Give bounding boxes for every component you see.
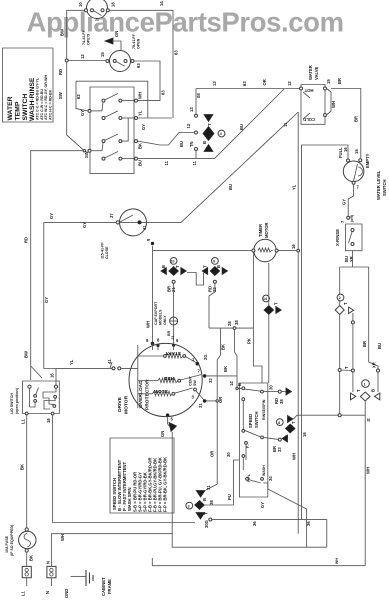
svg-text:MOTOR: MOTOR	[264, 222, 269, 238]
wire 34 wash out	[264, 483, 307, 547]
svg-text:14: 14	[263, 297, 267, 301]
svg-text:115-41-FF: 115-41-FF	[101, 242, 105, 259]
svg-text:WH: WH	[60, 534, 65, 541]
svg-text:33: 33	[277, 447, 282, 452]
red winding	[138, 369, 206, 383]
link YL-BK	[122, 118, 128, 141]
svg-text:WASH: WASH	[262, 465, 266, 476]
wire YL/16 bus vertical	[297, 112, 299, 534]
svg-text:B: B	[371, 389, 376, 392]
wire 28 row	[209, 327, 253, 329]
wire 115-FF out	[141, 221, 181, 223]
svg-text:WH: WH	[366, 467, 371, 474]
wire fuse to L1 plug	[26, 552, 28, 566]
svg-text:GY: GY	[141, 124, 146, 130]
wire FULL to 16 bus	[302, 145, 349, 250]
svg-text:13: 13	[189, 107, 194, 112]
wire BR 21 down to capacitor	[173, 283, 175, 317]
svg-text:GY: GY	[44, 297, 49, 303]
water level switch	[338, 147, 387, 200]
wire to lid switch left	[31, 151, 83, 380]
water temp switch legend box	[3, 48, 54, 122]
contact BU	[102, 157, 105, 160]
speed switch right terminals 30	[264, 385, 292, 404]
svg-text:4: 4	[220, 132, 222, 136]
timer motor	[252, 222, 278, 261]
chassis frame inner rect	[172, 432, 327, 547]
svg-text:AppliancePartsPros.com: AppliancePartsPros.com	[27, 7, 344, 38]
wire YL row	[138, 117, 173, 119]
svg-text:1: 1	[364, 383, 366, 387]
svg-text:SWITCH: SWITCH	[382, 179, 387, 196]
wire OR bus (y=88) to water valve	[196, 88, 300, 90]
svg-text:63: 63	[174, 50, 179, 55]
wire jog to cluster1 left	[341, 369, 353, 372]
svg-text:PROTECTOR: PROTECTOR	[145, 379, 151, 410]
wire WH down to motor	[152, 251, 154, 342]
wire BK jog	[217, 328, 220, 401]
svg-text:41: 41	[142, 225, 147, 230]
node SW junction	[83, 150, 89, 159]
svg-text:BK: BK	[29, 555, 34, 561]
diagonal BU up to OR bus	[215, 89, 285, 159]
svg-text:B: B	[216, 265, 221, 268]
svg-text:B: B	[202, 498, 207, 501]
svg-text:TEMP: TEMP	[15, 101, 22, 120]
svg-text:BR: BR	[362, 341, 367, 347]
svg-text:OR: OR	[262, 79, 267, 85]
svg-text:WH: WH	[335, 558, 339, 564]
svg-text:TN: TN	[189, 141, 194, 147]
svg-text:30: 30	[226, 452, 231, 457]
svg-text:GY: GY	[49, 213, 54, 219]
svg-text:HOT: HOT	[304, 88, 313, 93]
wire 16 lid down to cluster3 rail	[53, 415, 195, 523]
svg-text:38: 38	[279, 399, 284, 404]
wire timer motor left	[153, 250, 252, 252]
svg-text:15: 15	[326, 79, 331, 84]
svg-text:38: 38	[209, 500, 214, 505]
wire WH from S2 right	[134, 61, 160, 101]
svg-text:BU: BU	[228, 184, 233, 190]
svg-text:RINSE/SPIN: RINSE/SPIN	[262, 399, 266, 420]
svg-text:XR: XR	[349, 256, 354, 262]
svg-text:BR: BR	[337, 78, 342, 84]
svg-text:BU: BU	[377, 343, 382, 349]
svg-text:10A FUSE: 10A FUSE	[5, 535, 9, 553]
svg-text:GY: GY	[342, 199, 347, 205]
svg-text:T: T	[203, 265, 208, 268]
contact YL	[102, 117, 105, 120]
svg-text:SLOW: SLOW	[153, 388, 168, 394]
svg-text:31: 31	[198, 403, 203, 408]
svg-text:GY: GY	[80, 110, 85, 116]
svg-text:SWITCH: SWITCH	[254, 411, 259, 428]
svg-text:CLOSE: CLOSE	[105, 246, 109, 259]
wire BR right drop	[369, 267, 378, 392]
svg-text:36: 36	[252, 521, 257, 526]
wire BW from S1 left terminal	[67, 10, 85, 59]
svg-text:L1: L1	[21, 590, 26, 596]
wire BK lid to fuse	[26, 415, 28, 528]
svg-text:CABINET: CABINET	[101, 577, 106, 596]
svg-text:GY: GY	[82, 222, 87, 228]
wire 7/BK to speed switch	[206, 376, 242, 389]
svg-text:36: 36	[306, 521, 311, 526]
svg-text:74-41-FF: 74-41-FF	[82, 29, 86, 45]
svg-text:63: 63	[161, 90, 166, 95]
cabinet ground	[64, 570, 112, 598]
wire 28 drop to motor 7 wire	[235, 329, 238, 376]
svg-text:VALVE: VALVE	[314, 66, 319, 80]
lid switch	[10, 373, 59, 424]
svg-text:37: 37	[109, 213, 114, 218]
svg-text:9: 9	[213, 260, 215, 264]
svg-text:16: 16	[291, 244, 296, 249]
svg-text:62: 62	[76, 94, 81, 99]
svg-text:15: 15	[100, 52, 105, 57]
svg-text:8: 8	[278, 421, 280, 425]
svg-text:EMPTY: EMPTY	[365, 153, 370, 168]
svg-text:16: 16	[302, 432, 307, 437]
svg-text:10: 10	[78, 2, 83, 7]
connector stack T/B (to water valve harness)	[179, 89, 225, 159]
svg-text:RD: RD	[24, 237, 29, 243]
wire S1 right to top rail	[109, 10, 173, 118]
svg-text:2G: 2G	[203, 354, 208, 360]
node J1	[65, 59, 68, 62]
svg-text:11: 11	[283, 122, 288, 127]
timer switch S1 (top)	[78, 0, 116, 19]
connector group 1	[351, 380, 380, 415]
svg-text:WASH SPIN: WASH SPIN	[127, 488, 132, 512]
10A fuse	[5, 524, 36, 561]
svg-text:SWITCH: SWITCH	[22, 94, 29, 121]
X-RINSE switch	[335, 214, 362, 262]
svg-text:DRIVE: DRIVE	[117, 396, 123, 412]
svg-text:63: 63	[242, 81, 247, 86]
svg-text:OR: OR	[218, 397, 223, 403]
svg-text:GND: GND	[64, 589, 69, 598]
connector pair 2 (open)	[335, 294, 353, 314]
svg-text:BK: BK	[20, 464, 25, 470]
speed switch box	[237, 383, 268, 497]
svg-text:T: T	[344, 366, 349, 369]
svg-text:SPEED: SPEED	[248, 414, 253, 428]
timer switch S2	[100, 51, 134, 72]
capacitor (export models)	[154, 301, 178, 344]
svg-text:18: 18	[111, 2, 116, 7]
svg-text:38: 38	[234, 320, 239, 325]
box terminals right	[135, 99, 138, 102]
svg-text:LID SWITCH: LID SWITCH	[10, 393, 14, 414]
svg-text:SW: SW	[193, 380, 197, 386]
svg-text:WATER LEVEL: WATER LEVEL	[376, 170, 381, 200]
svg-text:3: 3	[188, 504, 190, 508]
wire RD down-left	[67, 62, 85, 151]
connector group 6	[161, 258, 186, 293]
node junction N row	[338, 414, 341, 417]
wire bypass 6-10	[187, 273, 204, 286]
svg-text:F-PL: F-PL	[247, 473, 251, 482]
wire timer motor right	[278, 250, 297, 252]
svg-text:16: 16	[50, 373, 55, 378]
svg-text:ATC H-C = RD-BK: ATC H-C = RD-BK	[48, 89, 52, 120]
wire YL to motor	[56, 367, 138, 369]
svg-text:OPEN: OPEN	[137, 38, 141, 49]
svg-text:13: 13	[212, 81, 217, 86]
wire WH bottom rail	[51, 534, 172, 566]
svg-text:30: 30	[269, 385, 274, 390]
wire RD 22 down	[209, 283, 215, 328]
wire 36 row	[212, 518, 327, 520]
water temp contact box	[88, 87, 135, 174]
svg-text:16: 16	[46, 418, 51, 423]
wire PU from diamond3	[204, 460, 239, 505]
wire frame right edge	[326, 519, 328, 547]
svg-text:63: 63	[136, 63, 141, 68]
wire drop A to diamond pair	[339, 267, 341, 305]
drive motor	[117, 338, 208, 417]
svg-text:T: T	[175, 265, 180, 268]
svg-text:GN: GN	[114, 31, 119, 37]
left feeds	[91, 110, 102, 112]
svg-text:28: 28	[227, 321, 232, 326]
svg-text:16: 16	[343, 147, 348, 152]
svg-text:12: 12	[287, 81, 292, 86]
svg-text:31: 31	[206, 485, 211, 490]
wire GY drop to lid switch	[43, 222, 45, 368]
svg-text:N: N	[367, 418, 370, 423]
svg-text:MOTOR: MOTOR	[124, 395, 130, 414]
svg-text:BW: BW	[60, 29, 65, 36]
svg-text:2: 2	[339, 296, 341, 300]
contact BK	[102, 140, 105, 143]
svg-text:GY: GY	[260, 502, 265, 508]
svg-text:14: 14	[229, 381, 234, 386]
svg-text:BR: BR	[167, 330, 171, 336]
svg-text:CENT: CENT	[189, 375, 193, 386]
svg-text:OPE'D: OPE'D	[87, 34, 91, 45]
svg-text:11: 11	[164, 160, 169, 165]
svg-text:WATER: WATER	[308, 65, 313, 80]
svg-text:(IF SO EQUIPPED): (IF SO EQUIPPED)	[10, 524, 14, 556]
svg-text:(off): (off)	[350, 214, 354, 222]
svg-text:X-RINSE: X-RINSE	[335, 229, 340, 246]
wire OR from motor 3 down	[206, 400, 217, 402]
wire A continue to N-row junction	[339, 315, 341, 414]
chassis arrow GN near S2	[105, 31, 121, 50]
svg-text:BW: BW	[24, 351, 29, 358]
svg-text:WATER: WATER	[7, 96, 14, 120]
svg-text:T: T	[343, 302, 348, 305]
svg-text:BU: BU	[239, 124, 244, 130]
motor internal bus	[137, 345, 139, 408]
wire FULL bus down	[301, 250, 303, 519]
svg-text:30G: 30G	[204, 520, 209, 528]
svg-text:T: T	[274, 302, 279, 305]
node timer/16 junction	[297, 249, 300, 252]
svg-text:BR: BR	[354, 116, 359, 122]
wire timer left drop to speed switch	[252, 252, 254, 328]
svg-text:12: 12	[80, 54, 85, 59]
svg-text:YL: YL	[69, 359, 74, 365]
svg-text:B: B	[237, 383, 242, 386]
svg-text:RD: RD	[58, 69, 63, 75]
connector group 8	[264, 416, 297, 453]
wire harness rail y267	[340, 266, 369, 268]
node 9 stub	[146, 238, 154, 251]
connector group 10	[202, 258, 227, 293]
115-41-FF switch	[101, 209, 148, 259]
svg-text:12: 12	[186, 123, 191, 128]
svg-text:11: 11	[192, 160, 197, 165]
svg-text:T: T	[204, 512, 209, 515]
svg-text:L1: L1	[21, 418, 26, 424]
svg-text:N: N	[45, 591, 50, 594]
svg-text:CAP EXPORT: CAP EXPORT	[154, 301, 158, 325]
svg-text:78-41-FF: 78-41-FF	[132, 33, 136, 49]
wire GY to 115-FF	[44, 221, 116, 223]
svg-text:14: 14	[159, 1, 164, 6]
speed switch legend box	[110, 438, 174, 513]
svg-text:WH: WH	[146, 321, 151, 328]
svg-text:XR: XR	[372, 362, 377, 368]
svg-text:T: T	[207, 123, 212, 126]
wire GY water level to X-rinse	[348, 184, 353, 216]
motor top terminals	[151, 342, 154, 345]
svg-text:(open position): (open position)	[15, 387, 19, 414]
svg-text:B: B	[202, 141, 207, 144]
svg-text:F-P = BR-BK, GY-BK/RD-BK: F-P = BR-BK, GY-BK/RD-BK	[163, 457, 168, 512]
svg-text:SW: SW	[58, 92, 63, 99]
wire PK to speed switch	[253, 328, 262, 383]
svg-text:10: 10	[171, 260, 175, 264]
svg-text:15: 15	[354, 149, 359, 154]
svg-text:T: T	[291, 421, 296, 424]
svg-text:T: T	[356, 389, 361, 392]
motor left terminals 41	[107, 359, 121, 370]
plug N	[45, 561, 56, 594]
svg-text:34: 34	[268, 476, 273, 481]
wire BK row to connector	[138, 133, 195, 146]
svg-text:WH: WH	[331, 101, 336, 108]
contact WH	[102, 99, 105, 102]
svg-text:SW: SW	[84, 151, 89, 158]
svg-text:OR: OR	[210, 451, 215, 457]
svg-text:BK: BK	[221, 344, 226, 350]
connector group 3	[186, 491, 214, 529]
svg-text:BK: BK	[138, 143, 143, 149]
svg-text:PU: PU	[227, 494, 232, 500]
svg-text:32: 32	[208, 378, 213, 383]
diagonal from 115-FF to YL bus	[181, 112, 298, 222]
svg-text:21: 21	[171, 336, 175, 340]
wire N row	[294, 415, 366, 566]
wire to switch S2	[68, 60, 106, 62]
wire lid top jog	[31, 366, 56, 385]
svg-text:BU: BU	[179, 141, 184, 147]
connector 14 diamond	[263, 295, 282, 314]
wire BU row long	[138, 158, 215, 160]
wire BR to water level empty	[331, 89, 361, 159]
svg-text:TIMER: TIMER	[258, 224, 263, 237]
wire GY input	[76, 81, 148, 118]
svg-text:N: N	[46, 561, 51, 564]
svg-text:B: B	[161, 265, 166, 268]
svg-text:START: START	[165, 350, 181, 356]
svg-text:WH: WH	[292, 453, 297, 460]
svg-text:MODELS: MODELS	[159, 309, 163, 325]
wire WH loop hot-cold	[327, 89, 332, 116]
svg-text:RED: RED	[163, 375, 174, 381]
svg-text:GN: GN	[160, 431, 165, 437]
svg-text:BK: BK	[223, 366, 228, 372]
svg-text:08: 08	[196, 93, 201, 98]
wire X-rinse bottom drop	[352, 251, 354, 267]
wire B from X-rinse drop to cluster1 left	[352, 313, 354, 392]
svg-text:PK: PK	[247, 338, 252, 344]
water valve	[300, 65, 327, 124]
svg-text:WH: WH	[138, 92, 143, 99]
wire diamond14 down	[268, 263, 270, 383]
svg-text:BU: BU	[138, 160, 143, 166]
wire outer bottom rail N	[152, 558, 365, 566]
svg-text:FRAME: FRAME	[107, 579, 112, 594]
svg-text:YL: YL	[138, 110, 143, 116]
motor bottom 5 / GN	[160, 414, 177, 437]
svg-text:ONLY: ONLY	[163, 315, 167, 325]
svg-text:YL: YL	[292, 184, 297, 190]
start winding	[138, 350, 208, 365]
plug L1	[21, 566, 32, 596]
slow winding	[138, 375, 206, 408]
